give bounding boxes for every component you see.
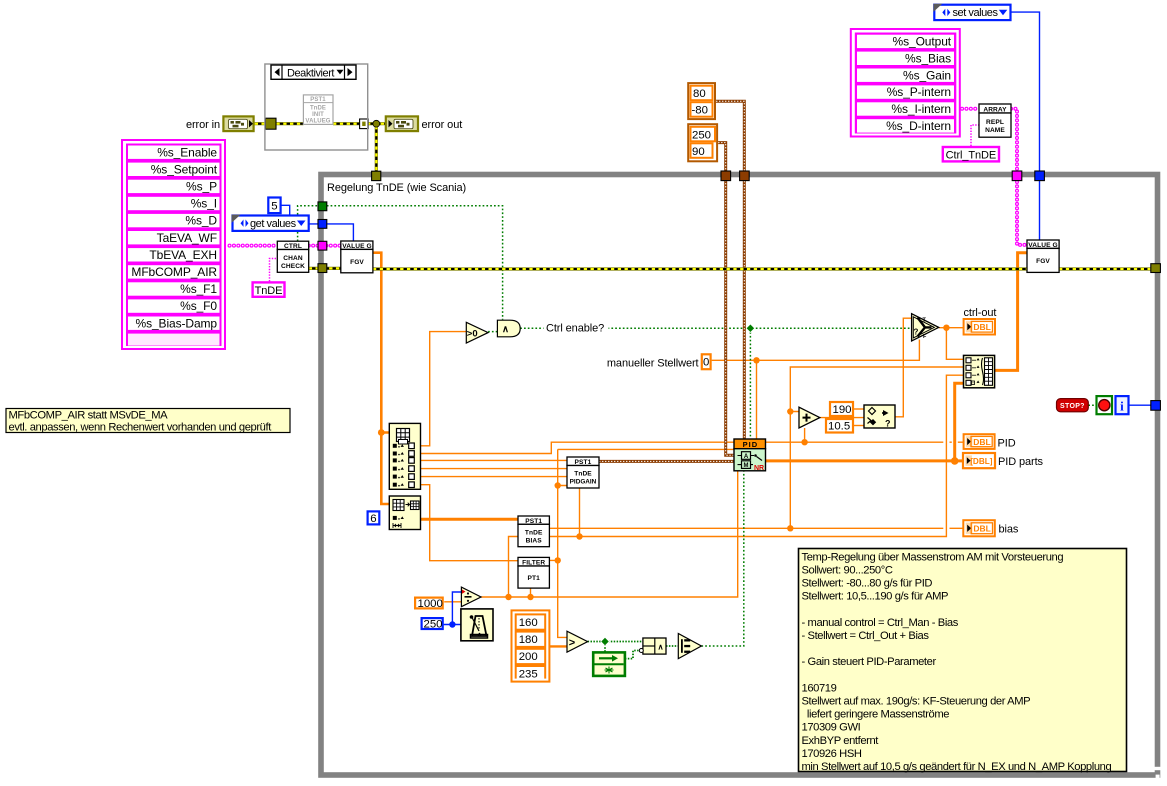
svg-text:Temp-Regelung über Massenstrom: Temp-Regelung über Massenstrom AM mit Vo… [802,551,1064,563]
svg-text:TbEVA_EXH: TbEVA_EXH [149,248,217,262]
svg-text:%s_F1: %s_F1 [180,282,217,296]
node: junction manual wire down to PID [753,357,759,363]
svg-text:Regelung TnDE (wie Scania): Regelung TnDE (wie Scania) [327,182,466,194]
svg-text:error in: error in [186,119,220,131]
node: junction PID output to plus [801,439,807,445]
node: tunnel brown 250/90 [721,171,731,181]
node: enum get values [232,215,309,231]
svg-text:DBL: DBL [973,524,990,534]
svg-text:FGV: FGV [350,259,364,266]
svg-text:Sollwert: 90...250°C: Sollwert: 90...250°C [802,565,893,577]
svg-text:MFbCOMP_AIR: MFbCOMP_AIR [131,265,217,279]
wire: index row3 to PIDGAIN in1 [421,459,568,461]
svg-text:%s_Output: %s_Output [893,35,952,49]
node: junction bias to PIDGAIN bottom [576,533,582,539]
svg-text:160: 160 [519,617,538,629]
node: comment MFbCOMP_AIR [6,409,290,434]
node: tunnel magenta left [318,241,327,250]
wire: dt line from divide to BIAS FILTER and PID bottom [481,471,738,597]
svg-text:%s_Enable: %s_Enable [157,145,217,159]
svg-text:evtl. anpassen, wenn Rechenwer: evtl. anpassen, wenn Rechenwert vorhande… [9,422,273,434]
wire: pink Ctrl_TnDE to REPL NAME [971,125,979,146]
svg-text:Stellwert: 10,5...190 g/s für: Stellwert: 10,5...190 g/s für AMP [802,591,949,603]
svg-text:%s_D: %s_D [185,214,217,228]
node: PST1 TnDE INIT VALUEG grayed icon [303,95,333,125]
svg-text:%s_Bias: %s_Bias [905,51,951,65]
node: greater than 0 comparison [466,322,488,343]
svg-text:0: 0 [703,356,709,368]
node: Ctrl_TnDE string constant [943,147,999,162]
svg-text:>0: >0 [467,328,478,339]
wire: green boolean-array zigzag chain [588,642,679,659]
node: cluster constant 250 90 [688,124,717,161]
node: wait metronome [461,609,493,641]
node: tunnel olive right error [1151,264,1161,273]
svg-text:Ctrl_TnDE: Ctrl_TnDE [946,150,996,162]
node: tunnel blue top [1035,171,1045,181]
node: bias DBL indicator [963,520,1019,536]
node: junction dt to BIAS [505,594,511,600]
node: compound AND with inverted input [639,638,666,654]
wire: pink ARRAY output through tunnel to FGV-right [1011,109,1027,245]
wire: index row1 up to greater-than-zero [421,332,467,446]
svg-text:TnDE: TnDE [310,106,326,112]
svg-text:F: F [923,334,927,340]
wire: brown cluster 250/90 down into PID left [718,143,734,456]
svg-text:%s_I: %s_I [191,197,217,211]
node: tunnel magenta top [1012,171,1022,181]
wire: 160-235 array to greater-than input [549,645,567,647]
node: tunnel green left [318,202,327,211]
svg-text:235: 235 [519,668,538,680]
wire: error dashed CHAN CHECK through frame to FGVs and right tunnel [309,267,1151,271]
node: numeric array constant 160 180 200 235 [512,610,550,681]
svg-text:TaEVA_WF: TaEVA_WF [157,231,217,245]
svg-text:170926 HSH: 170926 HSH [802,748,862,760]
node: numeric constant 6 [368,511,380,524]
node: Array Subset [389,496,420,530]
node: junction PID parts thick [951,457,959,465]
node: divide [461,587,481,607]
node: PID DBL indicator [964,434,1016,449]
node: Index Array [389,423,420,489]
node: VALUE G FGV subVI right [1027,240,1059,272]
node: select [912,314,939,341]
node: junction select output [943,325,949,331]
svg-text:set values: set values [953,7,999,19]
wire: pink string-array list to CTRL CHAN CHECK to FGV-left [230,244,341,248]
svg-text:170309 GWI: 170309 GWI [802,722,861,734]
svg-text:liefert geringere Massenströme: liefert geringere Massenströme [802,709,950,721]
svg-text:10.5: 10.5 [828,421,850,433]
svg-text:%s_Gain: %s_Gain [903,68,951,82]
svg-text:%s_Bias-Damp: %s_Bias-Damp [136,316,218,330]
svg-text:PID: PID [743,440,759,449]
node: junction olive error dot [373,120,380,127]
svg-text:PID: PID [998,438,1016,450]
svg-text:%s_F0: %s_F0 [180,299,217,313]
svg-text:bias: bias [999,524,1019,536]
node: PID parts DBL array indicator [963,453,1044,468]
svg-text:%s_D-intern: %s_D-intern [886,119,951,133]
wire: PID parts thick array to indicator and build-array input4 [766,383,964,461]
wire: BIAS output1 to bias DBL indicator [549,527,963,529]
node: PST1 TnDE PIDGAIN subVI [567,457,599,488]
node: string array constant list top right [851,29,960,137]
node: add plus [799,407,820,428]
node: numeric constant 190 [830,402,853,416]
wire: plus bottom input from PID output line [804,428,806,442]
svg-text:Stellwert auf max. 190g/s: KF-: Stellwert auf max. 190g/s: KF-Steuerung … [802,696,1031,708]
node: AND gate [497,320,520,337]
node: tunnel blue right stop [1151,401,1161,411]
svg-text:PID parts: PID parts [998,456,1044,468]
node: junction bias line x790 [787,525,793,531]
wire: manual value 0 to select-f and down into PID top [712,340,920,440]
svg-text:ARRAY: ARRAY [983,106,1007,113]
svg-text:250: 250 [424,619,443,631]
node: enum set values [933,4,1010,20]
svg-text:FGV: FGV [1036,258,1050,265]
node: tunnel brown 80/-80 [740,171,750,181]
svg-text:NR: NR [754,465,764,472]
wire: array subset output to BIAS (thick array) [421,518,519,521]
node: junction filter output at FILTER [555,557,561,563]
svg-text:CHECK: CHECK [281,263,305,270]
svg-text:180: 180 [519,634,538,646]
node: iteration terminal i [1116,396,1129,414]
node: greater than comparison [567,631,588,652]
svg-text:TnDE: TnDE [255,285,283,297]
node: junction blue 250 [449,621,455,627]
node: numeric constant 250 blue [422,618,443,630]
node: junction FGV array to index array [378,429,385,436]
wire: build-array output to FGV-right input [995,253,1027,371]
node: case structure right tunnel [360,119,369,129]
svg-text:- Gain steuert PID-Parameter: - Gain steuert PID-Parameter [802,656,937,668]
wire: FGV-left array output down to Index Array / Array Subset [373,253,389,504]
wire: blue i-terminal to right tunnel [1129,404,1151,406]
svg-text:REPL: REPL [986,119,1004,126]
node: CTRL CHAN CHECK subVI [277,241,308,272]
svg-text:MFbCOMP_AIR statt MSvDE_MA: MFbCOMP_AIR statt MSvDE_MA [9,410,169,422]
svg-text:∧: ∧ [502,324,509,335]
node: PID express vi [734,439,766,472]
svg-text:TnDE: TnDE [574,471,592,478]
node: numeric constant 10.5 [826,419,853,433]
node: error out cluster [386,116,462,131]
svg-text:NAME: NAME [985,127,1005,134]
node: numeric constant 1000 [415,598,443,610]
wire: green chan-check boolean up through tunnel to AND gate [298,206,503,320]
node: junction dt to FILTER [527,594,533,600]
wire: in-range output up to select t input [895,318,912,417]
svg-text:%s_Setpoint: %s_Setpoint [151,162,218,176]
wire: brown PIDGAIN cluster output to PID [599,460,734,463]
wire: bias vertical x790 to plus node and build-array input2 [790,367,963,528]
node: ctrl-out DBL indicator [964,307,997,335]
svg-text:Ctrl enable?: Ctrl enable? [546,323,604,335]
wire: green stop constant to stop button [1088,404,1096,406]
svg-text:A: A [744,454,749,460]
node: VALUE G FGV subVI left [341,241,373,273]
svg-text:250: 250 [692,129,711,141]
svg-text:-80: -80 [692,105,708,117]
wire: 1000 to divide [444,601,461,603]
wire: filter output vertical node: up to PID PV, PIDGAIN in4, down to greater node [549,449,734,637]
node: case structure Deaktiviert [265,64,368,150]
node: junction filter output to PIDGAIN [555,482,561,488]
wire: select output to ctrl-out DBL and build-array input1 [939,328,964,360]
svg-text:M: M [744,463,749,469]
svg-text:STOP?: STOP? [1060,403,1085,410]
svg-text:?: ? [885,419,891,429]
svg-text:manueller Stellwert: manueller Stellwert [607,357,699,369]
wire: brown cluster 80/-80 down into PID top [716,101,744,439]
svg-text:%s_I-intern: %s_I-intern [891,102,951,116]
node: FILTER PT1 subVI [518,557,549,588]
svg-text:∧: ∧ [658,642,664,651]
wire: green and-array-elements to PID bottom [701,471,743,646]
wire: blue 250 to metronome and divide [444,592,462,625]
node: junction green diamond boolean array [601,637,609,645]
svg-text:5: 5 [271,200,277,212]
wire: index row6 temperature down to FILTER input [421,485,519,561]
wire: green Ctrl enable to select and PID top [520,328,911,439]
node: cluster constant 80 -80 [688,83,715,119]
node: manueller Stellwert 0 constant [702,354,711,369]
svg-text:- manual control = Ctrl_Man -: - manual control = Ctrl_Man - Bias [802,617,959,629]
junction dots [378,325,959,601]
wire: pink TnDE to CHAN CHECK [270,259,278,282]
wire: 190 to in-range [854,408,864,410]
svg-text:CHAN: CHAN [283,255,303,262]
svg-text:min Stellwert auf 10,5 g/s geä: min Stellwert auf 10,5 g/s geändert für … [802,761,1112,773]
node: stop button terminal [1097,396,1113,414]
svg-text:200: 200 [519,651,538,663]
node: junction green diamond ctrl enable [746,324,754,332]
svg-text:Deaktiviert: Deaktiviert [287,67,334,79]
svg-text:Stellwert: -80...80 g/s für PI: Stellwert: -80...80 g/s für PID [802,578,933,590]
node: numeric constant 5 [268,198,280,214]
svg-text:TnDE: TnDE [525,529,543,536]
svg-text:INIT: INIT [312,112,324,118]
wire: pink top array to ARRAY REPL NAME [962,109,1027,245]
node: Ctrl enable label [544,321,609,335]
node: big comment Temp-Regelung [799,549,1127,774]
node: string array constant list left [122,140,225,349]
wire: plus output to in-range [820,417,864,419]
wire: green gt0 to AND gate [488,331,497,333]
svg-text:>: > [569,637,575,649]
svg-text:BIAS: BIAS [526,537,543,544]
wire: BIAS output2 to build-array input3 via vertical x946 [549,375,963,536]
node: error in cluster [186,116,254,131]
node: junction bias to plus input [787,408,793,414]
main while loop frame [321,175,1162,779]
svg-text:i: i [1120,398,1124,413]
svg-text:VALUEG: VALUEG [305,118,330,124]
node: tunnel olive top error [372,171,381,180]
svg-text:get values: get values [250,218,297,230]
node: and array elements [678,634,701,659]
node: case structure left tunnel [265,118,276,129]
svg-text:6: 6 [370,513,376,525]
svg-text:PT1: PT1 [527,575,540,582]
svg-text:PIDGAIN: PIDGAIN [570,479,597,486]
wire: index row2 setpoint across to PID and PID DBL indicator [421,442,964,453]
node: ARRAY REPL NAME subVI [979,104,1011,137]
svg-text:1000: 1000 [418,598,443,610]
node: tunnel blue left [318,220,327,229]
node: list rows left [128,145,220,345]
wire: error dashed error-in to case structure [255,124,385,171]
node: in range and coerce [864,405,895,429]
wire: index row4 to PIDGAIN in2 [421,468,568,470]
wire: blue set-values enum to FGV-right top [1011,12,1040,240]
svg-text:- Stellwert = Ctrl_Out + Bias: - Stellwert = Ctrl_Out + Bias [802,630,930,642]
node: build array [964,355,995,387]
wire: 10.5 to in-range [854,425,864,427]
node: tunnel olive left error [318,264,327,273]
wire: blue enum to FGV-left top [309,224,353,241]
svg-text:DBL: DBL [973,437,990,447]
svg-text:ctrl-out: ctrl-out [964,307,997,319]
svg-text:PST1: PST1 [310,97,326,103]
svg-text:[DBL]: [DBL] [970,457,993,466]
wire: blue 5 to get-values enum [281,205,290,215]
svg-text:160719: 160719 [802,682,837,694]
svg-text:%s_P: %s_P [186,180,217,194]
svg-text:90: 90 [692,146,705,158]
svg-text:80: 80 [693,88,706,100]
svg-text:ExhBYP entfernt: ExhBYP entfernt [802,735,880,747]
svg-text:error out: error out [422,119,463,131]
wire: index row5 to PIDGAIN in3 [421,476,568,478]
node: STOP? boolean constant [1057,399,1089,412]
node: search 1D array green [593,652,625,676]
svg-text:%s_P-intern: %s_P-intern [887,85,951,99]
node: PST1 TnDE BIAS subVI [518,516,549,547]
svg-text:DBL: DBL [973,322,990,332]
svg-text:190: 190 [833,404,852,416]
node: TnDE string constant [253,282,285,297]
